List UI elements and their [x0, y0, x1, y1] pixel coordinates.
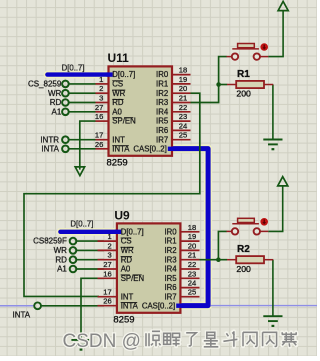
svg-text:24: 24: [188, 279, 196, 288]
svg-text:26: 26: [95, 140, 103, 149]
svg-text:CS8259F: CS8259F: [33, 237, 67, 246]
terminal circle RD (U9): [70, 256, 77, 263]
wire R1 right down to ground: [272, 85, 274, 140]
svg-text:CS_8259: CS_8259: [28, 80, 62, 89]
svg-text:21: 21: [179, 94, 187, 103]
svg-text:18: 18: [179, 66, 187, 75]
wire U11 A1 terminal to pin 27: [69, 111, 96, 113]
push button SW2 left terminal pin: [227, 230, 232, 232]
push button SW2 cap: [238, 218, 255, 222]
ground below U9 SP/EN: [71, 339, 90, 341]
wire U11 WR terminal to pin 2: [69, 92, 96, 94]
svg-text:19: 19: [179, 75, 187, 84]
svg-text:RD: RD: [55, 255, 67, 264]
svg-text:WR: WR: [54, 246, 68, 255]
left pin stubs of U11 (pins 1,2,3,27,16,17,26): [96, 83, 109, 85]
svg-text:R2: R2: [237, 244, 250, 255]
svg-text:INT: INT: [121, 292, 134, 301]
wire U11 INTR terminal to pin 17: [69, 139, 96, 141]
svg-text:19: 19: [188, 232, 196, 241]
svg-text:A0: A0: [112, 107, 122, 116]
resistor R1 body: [236, 81, 264, 88]
svg-text:IR2: IR2: [156, 89, 168, 98]
svg-text:23: 23: [179, 112, 187, 121]
junction node B: [216, 257, 221, 262]
bus nub CAS[0..2] out of U9: [176, 304, 182, 308]
bus nub CAS[0..2] out of U11: [168, 147, 174, 151]
svg-text:20: 20: [188, 241, 196, 250]
svg-text:IR3: IR3: [156, 98, 168, 107]
push button SW1 left terminal circle: [232, 53, 238, 59]
svg-text:21: 21: [188, 251, 196, 260]
terminal circle RD (U11): [62, 99, 69, 106]
svg-text:CSDN @: CSDN @: [63, 331, 141, 352]
push button SW1 left terminal pin: [227, 56, 232, 58]
wire SW2 right terminal to VCC arrow: [268, 186, 283, 232]
push button SW2 left terminal circle: [232, 228, 238, 234]
push button SW1 interactive red marker: [260, 43, 268, 51]
svg-text:U9: U9: [114, 208, 130, 222]
left pin stubs of U9 (pins 1,2,3,27,16,17,26): [98, 240, 117, 242]
terminal circle WR (U9): [70, 247, 77, 254]
terminal circle CS8259F (U9): [70, 238, 77, 245]
watermark char jing: [146, 331, 161, 346]
watermark char le: [186, 333, 196, 346]
watermark char shan2: [263, 332, 277, 346]
svg-text:R1: R1: [237, 69, 250, 80]
svg-text:IR5: IR5: [156, 117, 169, 126]
svg-text:A0: A0: [121, 265, 131, 274]
svg-text:27: 27: [103, 260, 111, 269]
wire U9 IR3 (pin21) to node B and R2: [193, 259, 227, 261]
ground below R1: [263, 139, 282, 141]
svg-text:INTA: INTA: [41, 144, 59, 153]
svg-text:A1: A1: [57, 265, 67, 274]
svg-text:IR5: IR5: [164, 274, 177, 283]
svg-text:2: 2: [107, 241, 111, 250]
resistor R1 leads: [227, 84, 236, 86]
svg-text:IR7: IR7: [156, 135, 168, 144]
svg-text:8259: 8259: [113, 314, 134, 325]
svg-text:INTA: INTA: [13, 311, 31, 320]
wire U11 RD terminal to pin 3: [69, 102, 96, 104]
svg-text:22: 22: [179, 103, 187, 112]
svg-text:A1: A1: [52, 107, 62, 116]
wire cascade U11 IR2 (pin20) to U9 INT (pin17): [24, 93, 200, 296]
faded INTA wire from left edge: [0, 305, 34, 307]
svg-text:25: 25: [188, 288, 196, 297]
svg-text:D[0..7]: D[0..7]: [121, 227, 144, 236]
faded bus continuation right of CAS bend: [211, 305, 317, 307]
svg-text:IR1: IR1: [156, 80, 168, 89]
bus nub D[0..7] into U9: [115, 230, 121, 234]
wire U9 A1 terminal to pin 27: [76, 268, 104, 270]
svg-text:17: 17: [103, 288, 111, 297]
svg-text:IR4: IR4: [156, 107, 169, 116]
wire U11 SP/EN pin 16 to down-arrow terminal: [80, 121, 96, 170]
wire node A to R1 left: [219, 84, 228, 86]
watermark char han: [282, 332, 297, 347]
terminal circle WR (U11): [62, 90, 69, 97]
bus nub D[0..7] into U11: [107, 72, 113, 76]
svg-text:IR6: IR6: [156, 126, 168, 135]
push button SW2 right terminal circle: [254, 228, 260, 234]
svg-text:3: 3: [107, 251, 111, 260]
resistor R2 body: [236, 256, 264, 263]
push button SW1 cap: [238, 44, 255, 48]
svg-text:WR: WR: [48, 89, 62, 98]
svg-text:D[0..7]: D[0..7]: [70, 219, 93, 228]
svg-text:17: 17: [95, 131, 103, 140]
bus halo underlays: [47, 71, 108, 79]
svg-text:20: 20: [179, 84, 187, 93]
8259 programmable interrupt controller U11 body: [109, 66, 173, 155]
junction node A: [216, 82, 221, 87]
svg-text:22: 22: [188, 260, 196, 269]
svg-text:IR1: IR1: [164, 237, 176, 246]
svg-text:8259: 8259: [107, 158, 128, 169]
svg-text:23: 23: [188, 269, 196, 278]
wire R2 right down to ground: [272, 260, 274, 316]
wire node A up to button SW1: [219, 57, 227, 85]
bus CAS[0..2] U11 to U9: [172, 149, 208, 306]
push button SW2 right terminal pin: [260, 230, 268, 232]
terminal circle INTA (U11): [62, 146, 69, 153]
svg-text:18: 18: [188, 223, 196, 232]
watermark char dou: [223, 331, 237, 347]
bus D[0..7] to U9: [60, 230, 117, 234]
svg-text:IR4: IR4: [164, 265, 177, 274]
svg-text:25: 25: [179, 131, 187, 140]
svg-text:IR3: IR3: [164, 255, 176, 264]
svg-text:1: 1: [99, 75, 103, 84]
wire U9 SP/EN pin16 left and down to ground: [81, 278, 104, 339]
terminal arrow down (U11 SP/EN): [75, 167, 84, 176]
push button SW1 right terminal circle: [254, 53, 260, 59]
terminal circle INTR (U11): [62, 136, 69, 143]
power terminal arrow up (VCC, bottom circuit): [278, 177, 288, 186]
svg-text:200: 200: [236, 89, 251, 99]
svg-text:27: 27: [95, 103, 103, 112]
push button SW2 interactive red marker: [260, 218, 268, 226]
terminal circle INTA (U9, bottom left): [34, 302, 41, 309]
wire node B up to button SW2: [218, 231, 226, 259]
svg-text:26: 26: [103, 297, 111, 306]
right pin stubs of U11 (pins 18..25 IR0..IR7): [172, 74, 191, 76]
svg-text:IR7: IR7: [164, 292, 176, 301]
wire U9 INTA terminal to pin 26: [41, 305, 104, 307]
push button SW1 actuator bar: [232, 48, 259, 50]
svg-text:16: 16: [95, 112, 103, 121]
8259 programmable interrupt controller U9 body: [117, 223, 180, 312]
wire U11 INTA terminal to pin 26: [69, 148, 96, 150]
watermark char shan: [243, 332, 257, 346]
right pin stubs of U9 (pins 18..25 IR0..IR7): [180, 231, 199, 233]
svg-text:INTR: INTR: [40, 135, 59, 144]
svg-text:IR2: IR2: [164, 246, 176, 255]
svg-text:2: 2: [99, 84, 103, 93]
svg-text:1: 1: [107, 232, 111, 241]
wire SW1 right terminal to VCC arrow: [268, 11, 283, 57]
push button SW1 right terminal pin: [260, 56, 268, 58]
svg-text:200: 200: [236, 264, 251, 274]
wire U11 IR3 (pin21) up to node A: [191, 85, 219, 103]
svg-text:IR6: IR6: [164, 283, 176, 292]
terminal circle A1 (U11): [62, 109, 69, 116]
svg-text:24: 24: [179, 121, 187, 130]
svg-text:CAS[0..2]: CAS[0..2]: [142, 301, 175, 310]
svg-text:16: 16: [103, 269, 111, 278]
watermark char xing: [204, 332, 219, 347]
ground below R2: [263, 315, 282, 317]
wire U9 RD terminal to pin 3: [76, 259, 104, 261]
push button SW2 actuator bar: [232, 223, 259, 225]
svg-text:INT: INT: [112, 135, 125, 144]
svg-text:U11: U11: [108, 51, 130, 65]
resistor R2 leads: [227, 259, 236, 261]
terminal circle CS_8259 (U11): [62, 81, 69, 88]
power terminal arrow up (top, cut at image edge): [278, 1, 288, 10]
terminal circle A1 (U9): [70, 266, 77, 273]
svg-text:IR0: IR0: [156, 70, 169, 79]
svg-text:CAS[0..2]: CAS[0..2]: [133, 144, 166, 153]
svg-text:D[0..7]: D[0..7]: [62, 64, 85, 73]
svg-text:RD: RD: [50, 98, 62, 107]
svg-text:IR0: IR0: [164, 227, 177, 236]
svg-text:3: 3: [99, 94, 103, 103]
wire U11 CS_8259 terminal to pin 1: [69, 83, 96, 85]
bus D[0..7] to U11: [47, 72, 108, 76]
wire U9 WR terminal to pin 2: [76, 249, 104, 251]
svg-text:D[0..7]: D[0..7]: [112, 70, 135, 79]
watermark char xing2: [164, 333, 180, 346]
wire U9 CS8259F terminal to pin 1: [76, 240, 104, 242]
